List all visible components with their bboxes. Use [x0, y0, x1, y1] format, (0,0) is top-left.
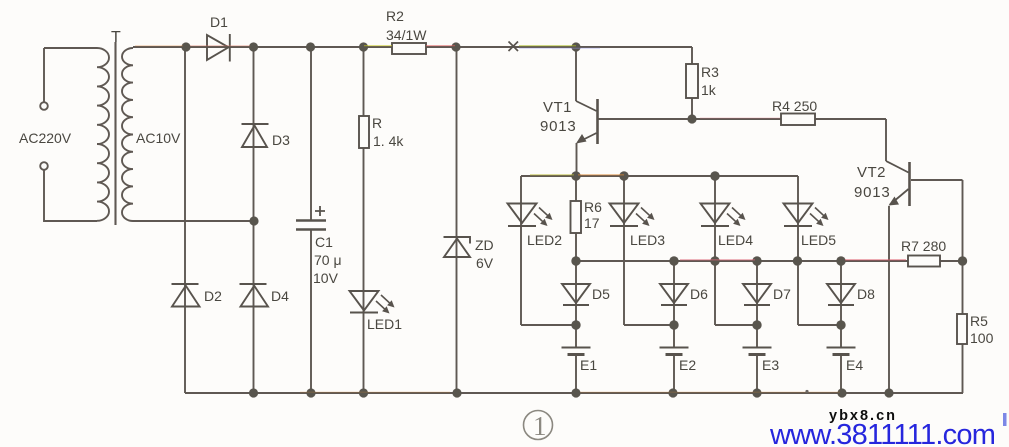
svg-text:D1: D1 [210, 14, 228, 30]
svg-text:1. 4k: 1. 4k [373, 133, 404, 149]
svg-text:D5: D5 [592, 286, 610, 302]
svg-text:9013: 9013 [854, 184, 891, 201]
svg-text:1: 1 [533, 411, 547, 441]
svg-text:D3: D3 [272, 132, 290, 148]
svg-text:LED3: LED3 [630, 232, 665, 248]
svg-text:70 μ: 70 μ [314, 252, 342, 268]
svg-text:ZD: ZD [475, 237, 494, 253]
svg-text:6V: 6V [476, 255, 494, 271]
svg-text:R3: R3 [701, 64, 719, 80]
svg-text:100: 100 [970, 330, 994, 346]
svg-text:9013: 9013 [540, 118, 577, 135]
svg-text:LED5: LED5 [801, 232, 836, 248]
svg-text:AC10V: AC10V [136, 130, 181, 146]
svg-text:AC220V: AC220V [19, 130, 72, 146]
svg-text:T: T [111, 29, 121, 46]
svg-text:R2: R2 [386, 8, 404, 24]
svg-text:R7 280: R7 280 [901, 238, 946, 254]
svg-text:1k: 1k [701, 82, 717, 98]
svg-text:LED4: LED4 [718, 232, 753, 248]
svg-text:E2: E2 [679, 357, 696, 373]
svg-text:www.3811111.com: www.3811111.com [769, 419, 995, 447]
svg-text:D7: D7 [773, 286, 791, 302]
svg-text:D2: D2 [204, 288, 222, 304]
svg-text:LED1: LED1 [367, 316, 402, 332]
svg-text:D4: D4 [271, 288, 289, 304]
svg-text:VT1: VT1 [543, 99, 572, 116]
svg-text:D8: D8 [857, 286, 875, 302]
svg-text:R4 250: R4 250 [772, 98, 817, 114]
svg-text:10V: 10V [313, 270, 339, 286]
svg-text:34/1W: 34/1W [386, 27, 427, 43]
svg-text:D6: D6 [690, 286, 708, 302]
svg-text:E1: E1 [580, 357, 597, 373]
svg-text:LED2: LED2 [527, 232, 562, 248]
svg-text:VT2: VT2 [857, 164, 886, 181]
svg-text:R6: R6 [584, 199, 602, 215]
svg-text:17: 17 [584, 215, 600, 231]
svg-text:E3: E3 [762, 357, 779, 373]
svg-text:E4: E4 [846, 357, 863, 373]
svg-text:R: R [372, 115, 382, 131]
svg-text:C1: C1 [315, 234, 333, 250]
svg-text:R5: R5 [970, 313, 988, 329]
